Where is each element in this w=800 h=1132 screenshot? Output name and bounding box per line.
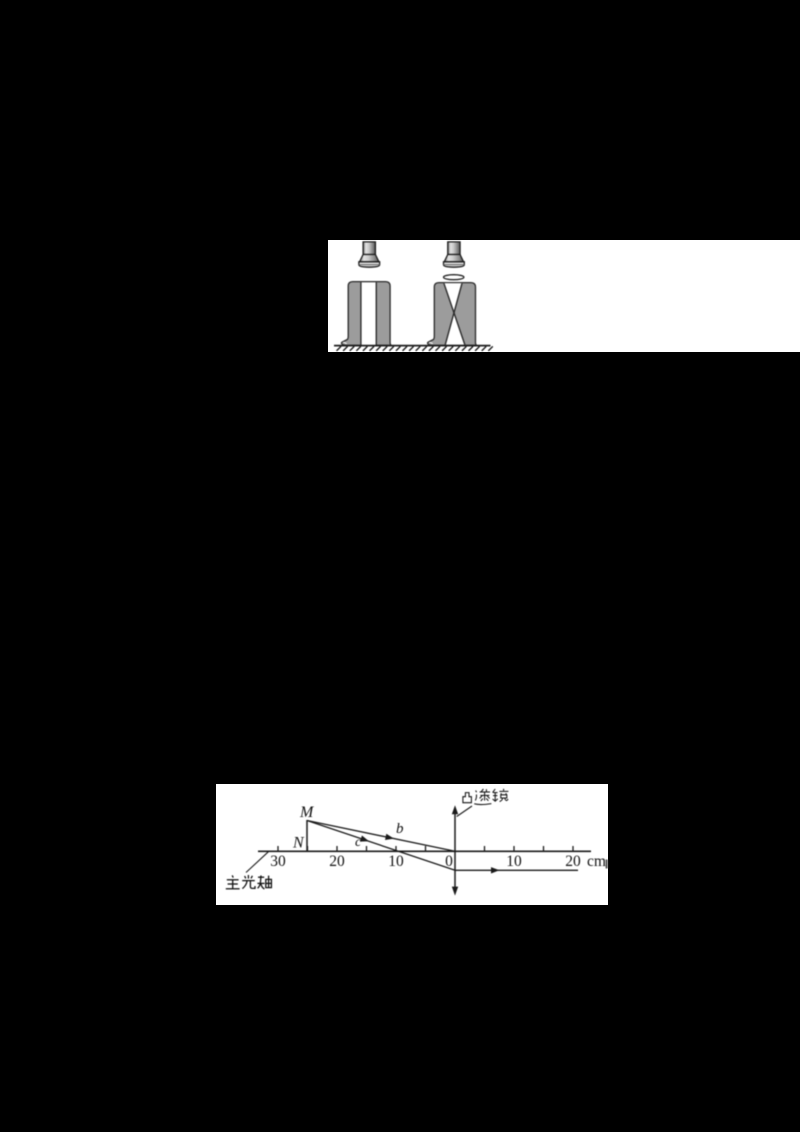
lens (double-headed vertical arrow) bbox=[452, 805, 458, 895]
skirt curl right beam bbox=[429, 342, 432, 344]
flashlight 1 (left) bbox=[358, 241, 379, 266]
white triangle above crossing bbox=[444, 283, 462, 314]
object MN bbox=[306, 820, 308, 852]
ground hatching bbox=[336, 346, 492, 351]
svg-text:10: 10 bbox=[388, 853, 404, 870]
ray b : M to optical centre bbox=[307, 821, 455, 852]
ground line bbox=[334, 344, 491, 346]
refracted ray: horizontal, parallel to axis bbox=[455, 869, 578, 871]
X beam edge lines bbox=[443, 283, 464, 345]
skirt curl left beam bbox=[343, 342, 346, 344]
主 bbox=[226, 875, 240, 888]
top figure panel: flashlight beams experiment bbox=[328, 240, 800, 353]
svg-text:c: c bbox=[355, 835, 362, 850]
透 bbox=[474, 789, 491, 805]
svg-text:30: 30 bbox=[270, 853, 286, 870]
svg-text:cm: cm bbox=[587, 853, 606, 870]
轴 bbox=[257, 875, 271, 889]
光 bbox=[242, 875, 255, 889]
right converging beam column (X crossing) bbox=[427, 282, 476, 345]
axis ticks bbox=[278, 846, 573, 851]
label 凸透镜 (hand strokes) with leader bbox=[457, 806, 472, 817]
svg-text:M: M bbox=[299, 804, 315, 821]
scale numbers bbox=[270, 853, 606, 870]
lens ellipse under right flashlight bbox=[443, 274, 463, 279]
label 主光轴 (hand strokes) with leader bbox=[246, 852, 268, 873]
凸 bbox=[463, 793, 472, 803]
svg-text:10: 10 bbox=[506, 853, 522, 870]
bottom figure panel: convex lens ray diagram bbox=[216, 784, 608, 905]
left parallel light beam column bbox=[341, 281, 391, 345]
flashlight 2 (right) bbox=[443, 241, 464, 266]
镜 bbox=[493, 789, 509, 802]
svg-text:20: 20 bbox=[329, 853, 345, 870]
svg-text:20: 20 bbox=[565, 853, 581, 870]
white triangle below crossing bbox=[445, 313, 464, 344]
ray c : M through focal point to lens bbox=[307, 821, 455, 871]
white stripe of left beam bbox=[361, 282, 375, 345]
principal axis bbox=[258, 850, 591, 852]
edge sliver artifact right of cm bbox=[606, 860, 608, 869]
svg-text:b: b bbox=[396, 821, 404, 837]
svg-text:N: N bbox=[292, 835, 305, 852]
